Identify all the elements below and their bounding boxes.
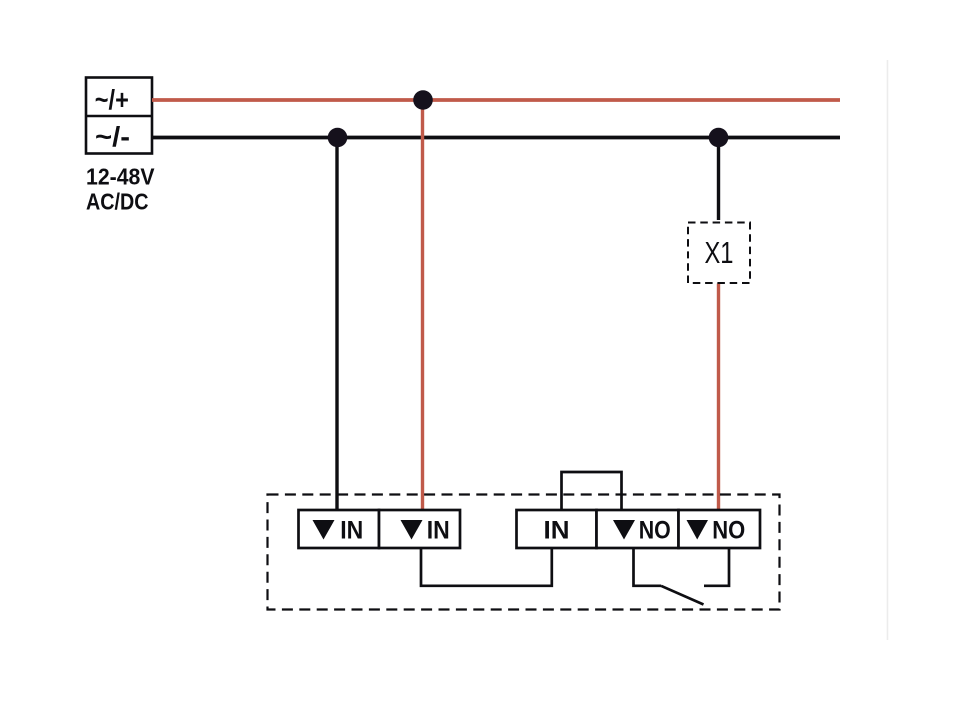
wire black drop to terminal IN1 — [335, 136, 338, 509]
relay contact blade (open switch) — [661, 586, 704, 605]
terminal NO2 — [679, 510, 761, 548]
svg-text:IN: IN — [427, 517, 450, 545]
junction on -V bus at IN1 drop — [328, 128, 348, 148]
value label 12-48V AC/DC — [86, 164, 155, 215]
wire +V bus (red horizontal) — [152, 98, 840, 102]
svg-text:NO: NO — [639, 517, 671, 545]
svg-text:12-48V: 12-48V — [86, 164, 155, 190]
junction on +V bus at IN2 drop — [413, 90, 433, 110]
terminal IN2 — [379, 510, 460, 548]
power supply terminal block PS — [86, 78, 152, 154]
switch X1 — [688, 223, 750, 284]
svg-text:~/+: ~/+ — [95, 84, 129, 115]
terminal IN1 — [299, 510, 380, 548]
wire red from X1 to terminal NO2 — [717, 284, 720, 510]
svg-text:IN: IN — [340, 517, 363, 545]
internal wire NO1 contact — [634, 548, 662, 586]
svg-text:X1: X1 — [705, 235, 734, 270]
internal wire IN2 to IN3 — [421, 548, 552, 586]
svg-text:IN: IN — [544, 517, 570, 545]
wire red drop to terminal IN2 — [421, 100, 424, 509]
triangle marker terminal NO2 — [687, 520, 709, 540]
svg-text:NO: NO — [712, 517, 745, 545]
triangle marker terminal NO1 — [613, 520, 635, 540]
internal wire NO2 contact — [704, 548, 729, 586]
wire black drop to switch X1 — [717, 136, 720, 220]
device enclosure (dashed outline) — [268, 495, 780, 610]
terminal NO1 — [597, 510, 679, 548]
svg-text:~/-: ~/- — [95, 121, 130, 152]
jumper link between IN3 and NO1 — [562, 472, 622, 510]
triangle marker terminal IN2 — [401, 520, 423, 540]
triangle marker terminal IN1 — [313, 520, 335, 540]
svg-text:AC/DC: AC/DC — [86, 189, 149, 215]
terminal IN3 — [517, 510, 597, 548]
page edge faint divider — [887, 60, 889, 640]
junction on -V bus at X1 drop — [709, 128, 729, 148]
wire -V bus (black horizontal) — [152, 136, 840, 140]
